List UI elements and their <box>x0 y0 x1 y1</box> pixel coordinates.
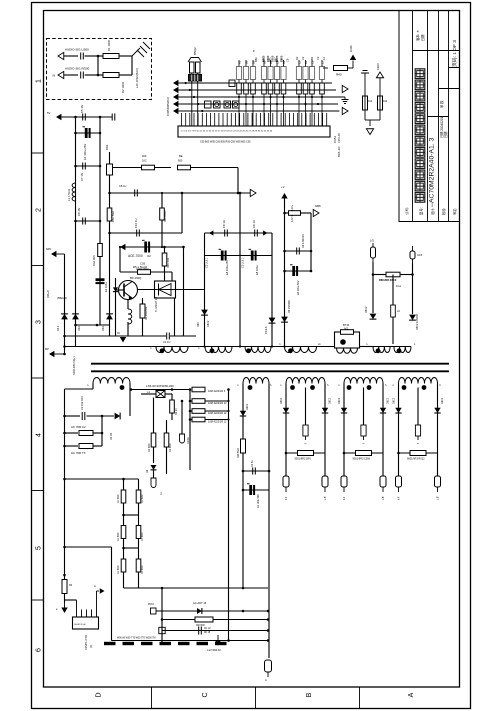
lamp connector CN5a <box>398 453 400 476</box>
svg-text:D4R: D4R <box>102 326 105 331</box>
svg-text:MP: MP <box>45 348 49 351</box>
IC U1 main connector box <box>178 126 330 137</box>
resistor R5x <box>410 451 426 456</box>
svg-text:D8C2: D8C2 <box>393 397 396 404</box>
svg-text:审定:: 审定: <box>452 208 457 215</box>
svg-text:m: m <box>417 443 419 445</box>
svg-text:C8 1U: C8 1U <box>119 184 126 188</box>
svg-text:m: m <box>305 443 307 445</box>
svg-text:bV: bV <box>117 332 120 335</box>
electrolytic E7 rung <box>243 489 269 491</box>
wire triac right <box>176 289 205 291</box>
capacitor C11 in emitter line <box>128 335 166 337</box>
title block column lines <box>413 11 449 222</box>
svg-text:R1 1K: R1 1K <box>175 408 178 415</box>
svg-text:页码: 1 OF 3: 页码: 1 OF 3 <box>451 40 458 67</box>
probe lamp LP2 <box>153 471 155 479</box>
svg-text:公司:: 公司: <box>404 207 409 215</box>
svg-text:D8C2: D8C2 <box>338 397 341 404</box>
svg-text:IN: IN <box>53 74 56 78</box>
bus P far-left bottom <box>64 389 66 580</box>
svg-text:R2: R2 <box>237 60 241 64</box>
pad box small <box>159 627 165 633</box>
wire plug P2 down <box>412 263 414 314</box>
svg-text:9001/9R3 1R6: 9001/9R3 1R6 <box>295 458 312 461</box>
svg-text:10M 4222/1R 12: 10M 4222/1R 12 <box>208 402 227 405</box>
test point triangle up 190V <box>376 72 383 78</box>
bus A vertical <box>75 117 77 346</box>
svg-text:E8 100u: E8 100u <box>255 265 259 275</box>
svg-text:m: m <box>265 679 267 682</box>
svg-text:版本: ＊: 版本: ＊ <box>415 30 420 41</box>
diode D1 on bus L <box>61 314 68 320</box>
winding BT1 lower <box>337 348 358 353</box>
svg-text:R0 15: R0 15 <box>204 632 211 634</box>
connector CON5-B box <box>73 617 99 629</box>
svg-text:9001/9R3 C056: 9001/9R3 C056 <box>353 458 371 461</box>
resistor R41 <box>363 96 368 110</box>
junction dots primary bus <box>63 345 66 348</box>
HV ladder left bus <box>189 390 191 471</box>
primary winding P4 <box>285 347 317 353</box>
resistor R21 AC 70R TX <box>65 445 79 447</box>
S2 right rail <box>268 384 270 659</box>
divider capacitor antenna <box>361 71 369 74</box>
ecap line y255 <box>205 255 241 257</box>
title block outline <box>399 11 460 222</box>
svg-text:R1 5M0: R1 5M0 <box>117 565 120 574</box>
secondary winding S5 <box>399 378 438 384</box>
svg-text:R5C 5UR: R5C 5UR <box>111 211 115 222</box>
svg-text:D8C2: D8C2 <box>441 397 444 404</box>
svg-text:DG1 0R5: DG1 0R5 <box>92 255 96 266</box>
HV resistor RH1 <box>192 387 205 392</box>
inductor L1 1.5mH <box>72 183 75 201</box>
svg-text:S000-R50 50(+): S000-R50 50(+) <box>72 356 76 375</box>
bus H2 vertical x240 <box>239 193 241 347</box>
inductor L3 small box <box>392 275 394 306</box>
svg-text:C2 UL5.1: C2 UL5.1 <box>242 257 245 268</box>
svg-text:设计: ***: 设计: *** <box>430 202 435 215</box>
svg-text:R1 5M0: R1 5M0 <box>117 494 120 503</box>
net arrow flag A3 <box>173 94 178 100</box>
diode D5 on H1 <box>201 310 208 316</box>
triac box U3 <box>155 281 176 298</box>
svg-text:D2 R2: D2 R2 <box>110 432 113 440</box>
bus B vertical <box>99 117 101 325</box>
svg-text:R2 5M0: R2 5M0 <box>169 443 172 452</box>
HV resistor RH2 <box>190 400 192 402</box>
svg-text:(N): (N) <box>90 644 93 648</box>
resistor R9 vertical mid <box>161 193 163 208</box>
svg-text:L/5: L/5 <box>370 239 374 243</box>
power flag +V arrow <box>281 193 287 198</box>
svg-text:R1C 0R1: R1C 0R1 <box>167 257 170 268</box>
svg-text:R2 100R: R2 100R <box>121 82 125 93</box>
capacitor C21 rung <box>243 470 269 472</box>
svg-text:R1 5M0: R1 5M0 <box>141 532 144 541</box>
svg-text:B5Q2: B5Q2 <box>193 47 197 55</box>
resistor R16 link line <box>373 274 386 276</box>
block5 right rail <box>437 384 439 454</box>
svg-text:C0N5B-1P 00: C0N5B-1P 00 <box>85 635 88 650</box>
primary winding P1 <box>156 347 188 353</box>
arrow into bus H3 <box>263 230 267 235</box>
ground arrow flag bottom <box>64 594 66 604</box>
diode D5b <box>434 408 440 413</box>
diode D12 <box>240 411 246 416</box>
diode D11 down <box>153 447 155 463</box>
svg-text:B8B8: B8B8 <box>266 55 270 62</box>
fuse F3 center <box>303 425 308 436</box>
net flag arrow MP <box>49 351 54 357</box>
svg-text:TL R5C2P 9.0: TL R5C2P 9.0 <box>155 296 158 312</box>
svg-text:Fxxx: Fxxx <box>396 285 402 288</box>
diode line y611 <box>156 610 268 612</box>
svg-text:R1 5M0: R1 5M0 <box>117 532 120 541</box>
svg-text:C2 102 1KV: C2 102 1KV <box>80 396 84 410</box>
block4 right rail <box>382 384 384 454</box>
primary bus wire <box>65 346 335 348</box>
transistor Q1 <box>119 281 138 300</box>
svg-text:AC70M2R2A40-A1. 3: AC70M2R2A40-A1. 3 <box>429 137 436 203</box>
svg-text:AC-ADT 15: AC-ADT 15 <box>193 601 207 605</box>
arrow into bus H1 <box>209 230 213 235</box>
svg-text:E2 100u: E2 100u <box>104 282 108 292</box>
svg-text:D8C2 1N5408: D8C2 1N5408 <box>416 314 419 330</box>
capacitor C2 <box>81 72 84 79</box>
link LK4 <box>233 101 240 108</box>
tie y548 <box>124 547 139 549</box>
net arrow right bottom <box>97 590 100 592</box>
svg-text:L.B: L.B <box>383 496 385 500</box>
svg-text:审 核: 审 核 <box>439 100 444 108</box>
resistor RC1b <box>136 490 141 503</box>
net flag arrow VIN <box>56 114 61 120</box>
svg-text:1N4L8: 1N4L8 <box>265 326 268 334</box>
IC pin wires <box>182 113 327 126</box>
svg-text:R40: R40 <box>336 73 342 77</box>
svg-text:C8 3.3/100V: C8 3.3/100V <box>302 234 305 248</box>
svg-text:B8: B8 <box>244 60 248 64</box>
svg-text:D8C2: D8C2 <box>387 397 390 404</box>
block3 left rail <box>285 384 287 454</box>
collect line y588 <box>124 587 269 589</box>
bus L far-left vertical <box>64 254 66 347</box>
fuse F1 box <box>109 152 111 164</box>
svg-text:C8 1U: C8 1U <box>252 220 256 228</box>
balance line block4 <box>344 452 383 454</box>
signal triangle GB8 <box>313 209 319 216</box>
svg-text:L.B: L.B <box>438 496 440 500</box>
svg-text:L.B: L.B <box>325 496 327 500</box>
resistor bank risers <box>239 60 322 126</box>
block5 left rail <box>398 384 400 454</box>
S2 left rail <box>242 384 244 589</box>
svg-text:C051: C051 <box>333 135 337 143</box>
wire emitter down <box>127 300 129 310</box>
svg-text:1: 1 <box>36 79 43 83</box>
wire to ground <box>131 56 133 75</box>
resistor bank row 2 <box>237 83 242 94</box>
resistor R2 100R <box>98 74 103 76</box>
HV resistor RH3 <box>190 410 192 412</box>
net flag NPC arrow <box>51 251 56 257</box>
capacitor C13 1U <box>255 230 258 237</box>
svg-text:2: 2 <box>36 208 43 212</box>
svg-text:B: B <box>306 692 313 697</box>
diode D30 AC-ADT <box>197 608 202 614</box>
zone ticks left margin <box>32 152 44 154</box>
power entry arrow down <box>215 640 221 645</box>
resistor R4x <box>356 451 372 456</box>
svg-text:D8C2: D8C2 <box>365 306 368 313</box>
svg-text:BO-150Q: BO-150Q <box>130 276 141 280</box>
title block divider rows <box>413 51 460 117</box>
resistor R3x <box>298 451 314 456</box>
cap line y630 <box>162 630 268 632</box>
svg-text:R1 0R1/5W: R1 0R1/5W <box>145 306 148 320</box>
diode D8 on plug1 line <box>370 314 377 320</box>
svg-text:W00 A0 W00 7T0 W00 7T0: W00 A0 W00 7T0 W00 7T0 W000 TM <box>117 637 156 640</box>
svg-text:R5-1 5C2Q: R5-1 5C2Q <box>133 265 148 269</box>
test point triangle down <box>366 129 373 135</box>
diode D2 on bus A <box>72 314 79 320</box>
capacitor C5 1N <box>83 114 86 121</box>
link LK1 <box>205 101 212 108</box>
diode D4 small <box>113 287 118 291</box>
svg-text:校验:: 校验: <box>441 208 446 215</box>
diode D6 on H3 <box>269 318 276 324</box>
resistor R23 vertical <box>153 398 155 434</box>
svg-text:NPC: NPC <box>46 248 51 251</box>
svg-text:R42: R42 <box>382 99 388 103</box>
resistor R12 vertical <box>142 298 144 336</box>
CON5 pins <box>77 591 97 617</box>
svg-text:10M 4222/1R 12: 10M 4222/1R 12 <box>208 421 227 424</box>
wire S1 left end <box>92 384 94 390</box>
wire emitter coil bottom <box>127 322 129 336</box>
wire drive line <box>125 246 183 248</box>
block3 center tap <box>305 388 307 426</box>
svg-text:m: m <box>94 585 96 588</box>
svg-text:日期: 日期 <box>443 132 448 138</box>
svg-text:R00 5W00: R00 5W00 <box>164 210 167 222</box>
svg-text:1K2: 1K2 <box>142 159 147 163</box>
capacitor C14 <box>285 250 312 252</box>
svg-text:C2RA: C2RA <box>187 437 190 444</box>
pad strip under rail <box>104 642 116 645</box>
ground symbol IC right <box>344 97 346 99</box>
svg-text:300: 300 <box>142 154 147 158</box>
vertical x243 bottom <box>242 610 245 613</box>
diode D3a <box>283 408 289 413</box>
net arrow flag A1 <box>173 80 178 86</box>
svg-text:D5.1: D5.1 <box>57 325 60 331</box>
block5 center tap <box>417 388 419 426</box>
resistor R17 on BT1 <box>341 330 354 335</box>
block4 center tap <box>363 388 365 426</box>
ground hatch <box>132 42 150 57</box>
wire S1 right bus <box>130 389 190 391</box>
capacitor C1 <box>81 53 84 60</box>
svg-text:C5 1N: C5 1N <box>80 105 84 113</box>
resistor R24 vertical <box>166 420 168 433</box>
resistor R5 1K 1/2W <box>113 167 142 169</box>
svg-text:L1/2 W00 A0: L1/2 W00 A0 <box>207 649 221 652</box>
svg-text:C05 L05: C05 L05 <box>337 133 341 143</box>
svg-text:BT10: BT10 <box>343 323 350 327</box>
lamp connector CN3a <box>285 453 287 476</box>
diode D3 on bus F <box>106 314 113 320</box>
svg-text:+V: +V <box>281 185 285 189</box>
net flag arrow drive <box>120 244 125 250</box>
svg-text:D8C2: D8C2 <box>246 403 249 410</box>
svg-text:AC 70R TX: AC 70R TX <box>71 451 86 455</box>
link LK3 <box>224 101 231 108</box>
resistor RC3b <box>136 559 141 572</box>
svg-text:C2: C2 <box>301 56 305 60</box>
power flag +12V arrow <box>352 61 354 69</box>
svg-text:000 R00: 000 R00 <box>196 625 205 627</box>
bus F vertical <box>109 175 111 336</box>
svg-text:1N40: 1N40 <box>349 45 353 52</box>
junction x102 <box>101 415 104 418</box>
svg-text:L1 1.5mH: L1 1.5mH <box>67 189 71 201</box>
svg-text:10M 4222/1R 3: 10M 4222/1R 3 <box>208 390 226 393</box>
svg-text:日期: 日期 <box>420 35 425 41</box>
resistor column rails <box>123 479 125 588</box>
resistor R31 <box>195 617 213 622</box>
resistor R40 top right <box>323 67 328 69</box>
diode D10 <box>115 413 121 420</box>
svg-text:J000R 1P-00: J000R 1P-00 <box>74 624 87 626</box>
diode D5a <box>395 408 401 413</box>
fuse F4 center <box>361 425 366 436</box>
fuse F5 center <box>415 425 420 436</box>
border frame inner <box>44 11 460 688</box>
lamp connector CN3b <box>324 453 326 476</box>
svg-text:AUDIO SIG.R/500: AUDIO SIG.R/500 <box>65 67 90 71</box>
svg-text:LX6-00 00T0D5L220: LX6-00 00T0D5L220 <box>146 384 174 388</box>
capacitor C7 1N <box>76 165 101 167</box>
electrolytic E3 drive <box>144 242 147 253</box>
svg-text:4: 4 <box>36 433 43 437</box>
svg-text:B2: B2 <box>310 56 314 60</box>
wire bus to pin1 <box>65 599 77 601</box>
svg-text:C2 UL5.1: C2 UL5.1 <box>206 257 209 268</box>
svg-text:10M 4222/1R 12: 10M 4222/1R 12 <box>208 412 227 415</box>
svg-text:U2: U2 <box>147 254 151 258</box>
svg-text:UL5: UL5 <box>417 253 423 257</box>
capacitor C20 series <box>65 415 81 417</box>
pad P-in <box>151 608 157 614</box>
capacitor C10 <box>137 230 140 237</box>
svg-text:(D8+A): (D8+A) <box>47 290 50 298</box>
svg-text:3: 3 <box>36 320 43 324</box>
svg-text:AUDIO SIG.L/500: AUDIO SIG.L/500 <box>65 48 89 52</box>
resistor RC2a <box>121 526 126 539</box>
svg-text:C1 1U: C1 1U <box>163 340 170 344</box>
svg-text:E8 100u 25V: E8 100u 25V <box>225 260 229 275</box>
junction dots on bus rows <box>238 96 240 98</box>
resistor R25 vertical <box>241 439 246 453</box>
wire control line 2 <box>110 192 251 194</box>
primary winding P5b <box>394 347 411 353</box>
capacitor C6 stub <box>112 114 115 121</box>
zone ticks bottom margin <box>151 687 153 709</box>
diode D4b <box>380 408 386 413</box>
lamp connector CN5b <box>437 453 439 476</box>
right rail x311 <box>310 213 312 271</box>
capacitor C12 1U <box>225 230 228 237</box>
svg-text:C8C2: C8C2 <box>207 320 210 327</box>
svg-text:R2: R2 <box>295 56 299 60</box>
svg-text:D8 1N5408: D8 1N5408 <box>288 300 291 313</box>
wire junction node <box>97 56 99 75</box>
resistor R6 <box>178 165 191 170</box>
wire S1 right end <box>129 384 131 417</box>
svg-text:600: 600 <box>178 159 183 163</box>
svg-text:C05 B05 W05 C05 B05 R05: C05 B05 W05 C05 B05 R05 C05 W05 B05 C05 <box>200 141 251 144</box>
resistor R15 to GB8 <box>285 212 289 214</box>
lamp connector CN4a <box>343 453 345 476</box>
svg-text:D8C2: D8C2 <box>280 397 283 404</box>
svg-text:9001/9R3 R022: 9001/9R3 R022 <box>407 458 425 461</box>
emitter coil L2 <box>128 309 132 324</box>
electrolytic E4 <box>221 251 224 261</box>
buffer triangle T1 <box>342 85 348 92</box>
resistor R1 100R <box>98 55 103 57</box>
svg-text:m: m <box>363 443 365 445</box>
signal triangle out <box>250 189 256 196</box>
resistor R20 AC 70R C2 <box>65 432 79 434</box>
resistor R7 vertical <box>107 208 112 221</box>
secondary winding S4 <box>344 378 383 384</box>
net arrow flag A4 <box>173 101 178 107</box>
electrolytic E6 <box>285 270 312 272</box>
test plug P1 <box>372 243 374 247</box>
capacitor C9 1U <box>135 190 138 197</box>
svg-text:B8B8: B8B8 <box>262 55 266 62</box>
ecap line y255 b <box>240 255 272 257</box>
electrolytic E1 100u <box>76 132 101 134</box>
AC-ADT subcircuit left rail <box>161 588 163 643</box>
block3 right rail <box>324 384 326 454</box>
svg-text:R1 5M0: R1 5M0 <box>141 565 144 574</box>
vertical from resistor R10 to triac <box>164 266 166 281</box>
svg-text:C8: C8 <box>286 58 290 62</box>
block4 left rail <box>343 384 345 454</box>
balance line block5 <box>399 452 438 454</box>
wire base connect <box>116 289 125 291</box>
svg-text:5V: 5V <box>47 111 50 115</box>
svg-text:C0 1U: C0 1U <box>204 628 211 630</box>
wire top left <box>62 116 113 118</box>
HV right bus down <box>228 390 230 641</box>
svg-text:R1 5M0: R1 5M0 <box>141 494 144 503</box>
balance line block3 <box>286 452 325 454</box>
secondary winding S1 <box>93 378 130 384</box>
probe lamp LP1 <box>181 401 183 434</box>
svg-text:1 2 3 4 5 6 7 8 9 10 11 12 13: 1 2 3 4 5 6 7 8 9 10 11 12 13 14 15 16 1… <box>181 131 273 133</box>
svg-text:B8C: B8C <box>254 57 258 62</box>
link LK2 <box>214 101 221 108</box>
svg-text:AC 70R C2: AC 70R C2 <box>71 425 86 429</box>
diode D9 on plug2 line <box>409 315 416 321</box>
test plug P2 UL5 <box>412 246 414 251</box>
vertical X-box drops <box>174 298 176 336</box>
